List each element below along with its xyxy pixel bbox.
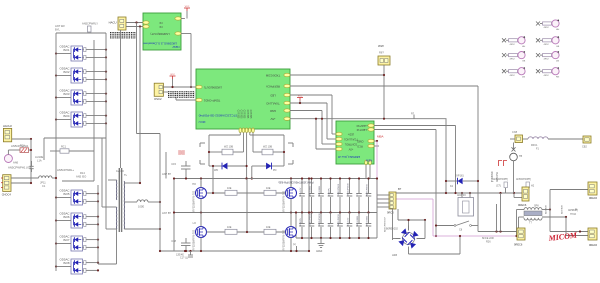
- svg-text:C07 805: C07 805: [243, 110, 245, 119]
- svg-text:6R2DJPW00: 6R2DJPW00: [347, 183, 349, 196]
- svg-text:ISO4: ISO4: [63, 114, 70, 118]
- svg-text:TB: TB: [519, 155, 523, 158]
- svg-text:10E: 10E: [266, 187, 271, 190]
- svg-text:(L): (L): [293, 243, 296, 246]
- svg-text:9REC6: 9REC6: [518, 203, 527, 207]
- svg-text:IRF3205WRF8-7E0: IRF3205WRF8-7E0: [283, 190, 286, 212]
- svg-text:LM2596S_5.0_Datasheet: LM2596S_5.0_Datasheet: [143, 42, 177, 46]
- svg-text:BYL: BYL: [55, 28, 60, 32]
- svg-text:C1: C1: [42, 184, 46, 188]
- svg-text:C15: C15: [171, 162, 176, 166]
- svg-text:WW: WW: [378, 44, 384, 48]
- svg-text:ISO5: ISO5: [63, 192, 70, 196]
- svg-text:C/4DJPW00: C/4DJPW00: [338, 183, 340, 196]
- svg-text:HACU: HACU: [109, 21, 117, 25]
- svg-text:C1? (L): C1? (L): [180, 257, 188, 260]
- svg-text:ISO6: ISO6: [63, 215, 70, 219]
- svg-text:HACU2: HACU2: [3, 124, 12, 128]
- svg-text:GB: GB: [556, 46, 560, 48]
- svg-text:C/4DJPW00: C/4DJPW00: [309, 213, 311, 226]
- svg-text:LM2596(OUT): LM2596(OUT): [150, 32, 169, 36]
- svg-text:C07 805: C07 805: [249, 110, 251, 119]
- svg-text:4R52: 4R52: [510, 59, 516, 61]
- svg-text:RC1: RC1: [61, 146, 67, 149]
- svg-text:0+C03: 0+C03: [116, 169, 124, 173]
- svg-text:4R 100EB: 4R 100EB: [309, 185, 311, 196]
- svg-text:R14: R14: [80, 171, 85, 175]
- svg-text:ISO7: ISO7: [63, 238, 70, 242]
- svg-text:C18: C18: [171, 239, 176, 243]
- svg-text:EBPD/E4_Rev.u5: EBPD/E4_Rev.u5: [338, 155, 360, 159]
- svg-text:AN7 B?: AN7 B?: [162, 211, 171, 215]
- svg-text:4R52: 4R52: [544, 44, 550, 46]
- svg-text:AN5CPWRLY: AN5CPWRLY: [82, 22, 98, 26]
- svg-text:LED+: LED+: [347, 132, 354, 135]
- svg-text:IRF3205WRF8-7E0: IRF3205WRF8-7E0: [193, 229, 196, 251]
- svg-text:LM2596(OUT): LM2596(OUT): [204, 86, 222, 90]
- svg-text:AN5CPWRL+: AN5CPWRL+: [57, 168, 75, 172]
- svg-text:AN5UPW00: AN5UPW00: [365, 183, 368, 196]
- svg-text:C07 805: C07 805: [240, 110, 242, 119]
- svg-text:B?: B?: [398, 187, 402, 191]
- svg-text:AU10E: AU10E: [35, 155, 43, 159]
- svg-text:AN5/B08: AN5/B08: [545, 204, 548, 214]
- svg-text:HH: HH: [556, 29, 560, 31]
- svg-text:[HdMOND: [HdMOND: [492, 171, 494, 182]
- svg-text:9RC0: 9RC0: [387, 211, 394, 215]
- svg-text:-LED/T1F: -LED/T1F: [356, 128, 367, 131]
- svg-text:C07 805: C07 805: [246, 110, 248, 119]
- svg-text:4R52: 4R52: [544, 27, 550, 29]
- svg-text:47u 16V: 47u 16V: [347, 217, 349, 226]
- svg-text:AREF: AREF: [316, 250, 323, 253]
- svg-text:TXA/LLNO: TXA/LLNO: [265, 101, 279, 105]
- svg-text:47u 16V: 47u 16V: [300, 187, 302, 196]
- svg-text:4R 100EB: 4R 100EB: [357, 215, 359, 226]
- svg-text:PWM 100RT/45UCE/XPW-8(B): PWM 100RT/45UCE/XPW-8(B): [278, 181, 313, 184]
- svg-text:NI: NI: [159, 25, 162, 29]
- svg-text:AN5CPWPH]: AN5CPWPH]: [516, 178, 531, 181]
- svg-text:HH: HH: [522, 46, 526, 48]
- svg-text:AN5CPWPH]: AN5CPWPH]: [493, 178, 508, 181]
- svg-text:ANT W2: ANT W2: [55, 24, 65, 28]
- svg-text:B0REA202: B0REA202: [386, 228, 398, 231]
- svg-text:RCO: RCO: [357, 145, 363, 148]
- svg-text:C07 805: C07 805: [236, 110, 238, 119]
- svg-text:10E: 10E: [266, 226, 271, 229]
- svg-text:MCU: MCU: [199, 120, 206, 124]
- svg-text:R6?: R6?: [379, 51, 384, 55]
- svg-text:9REC6: 9REC6: [514, 243, 523, 247]
- svg-text:PD: PD: [273, 169, 277, 172]
- svg-text:ISO3: ISO3: [63, 92, 70, 96]
- svg-text:4R 100EB: 4R 100EB: [366, 215, 368, 226]
- svg-text:HO: HO: [192, 183, 196, 186]
- svg-text:VCC: VCC: [185, 6, 190, 8]
- svg-text:CONTROL: CONTROL: [344, 142, 357, 145]
- svg-text:H4B: H4B: [392, 253, 397, 257]
- svg-text:PI: PI: [575, 209, 578, 212]
- svg-text:GND: GND: [270, 109, 276, 113]
- svg-text:HY1D: HY1D: [570, 214, 576, 216]
- svg-text:STC12C5A60S2-35I-PDIP40: STC12C5A60S2-35I-PDIP40: [198, 114, 237, 118]
- svg-text:AN5CPWPH1 (G0): AN5CPWPH1 (G0): [8, 166, 32, 170]
- svg-text:4R52: 4R52: [510, 75, 516, 77]
- svg-text:VCC: VCC: [170, 74, 175, 76]
- svg-text:WD: WD: [214, 169, 218, 172]
- svg-text:NI: NI: [159, 21, 162, 25]
- svg-text:4R52: 4R52: [544, 59, 550, 61]
- svg-text:+5V: +5V: [270, 117, 275, 121]
- svg-text:AN5CPW: AN5CPW: [496, 171, 499, 182]
- svg-text:NEW: NEW: [172, 45, 179, 49]
- svg-text:R26: R26: [486, 241, 491, 244]
- svg-text:WZ 10B: WZ 10B: [263, 146, 272, 149]
- svg-text:4R52: 4R52: [510, 44, 516, 46]
- svg-text:100E: 100E: [138, 205, 144, 209]
- svg-text:OSC2: OSC2: [154, 97, 162, 101]
- svg-text:4R52: 4R52: [544, 75, 550, 77]
- svg-text:105EPU: 105EPU: [328, 187, 330, 196]
- svg-text:ISO1: ISO1: [63, 48, 70, 52]
- svg-text:4R 100EB: 4R 100EB: [319, 185, 321, 196]
- svg-text:JXP181: JXP181: [455, 175, 464, 178]
- svg-text:MBA: MBA: [377, 135, 384, 139]
- svg-text:CHOC4: CHOC4: [2, 193, 12, 197]
- svg-text:TXD0/COM: TXD0/COM: [265, 73, 280, 77]
- svg-text:10E: 10E: [227, 226, 232, 229]
- svg-text:LO: LO: [193, 222, 196, 225]
- svg-text:ISO8: ISO8: [63, 261, 70, 265]
- svg-text:(C?): (C?): [496, 185, 501, 188]
- svg-text:AN5UPW00: AN5UPW00: [337, 213, 340, 226]
- svg-text:IRF3205WRF8-7E0: IRF3205WRF8-7E0: [193, 190, 196, 212]
- svg-text:L1A: L1A: [37, 159, 42, 163]
- svg-text:+LED/T1F: +LED/T1F: [356, 124, 368, 127]
- svg-text:WZ 10B: WZ 10B: [224, 146, 233, 149]
- svg-text:RN: RN: [556, 77, 560, 79]
- svg-text:CB2: CB2: [582, 146, 587, 149]
- svg-text:TCA/LLNO1: TCA/LLNO1: [344, 137, 358, 140]
- svg-text:REF/PACA: REF/PACA: [266, 84, 280, 88]
- svg-text:JP11: JP11: [40, 181, 46, 185]
- svg-text:9REC6: 9REC6: [589, 197, 598, 200]
- svg-text:AN5 ISO: AN5 ISO: [76, 175, 86, 179]
- svg-text:GB: GB: [522, 61, 526, 63]
- svg-text:LED: LED: [270, 93, 275, 97]
- svg-text:DB: DB: [522, 77, 526, 79]
- svg-text:6R2DJPW00: 6R2DJPW00: [319, 213, 321, 226]
- svg-text:AN6: AN6: [13, 161, 19, 165]
- svg-text:IRF3205WRF8-7E0: IRF3205WRF8-7E0: [283, 229, 286, 251]
- svg-text:ISO2: ISO2: [63, 70, 70, 74]
- svg-text:TEMP-GND1: TEMP-GND1: [203, 99, 220, 103]
- svg-text:9REC6: 9REC6: [589, 244, 598, 247]
- svg-text:AN7 B?: AN7 B?: [162, 172, 171, 176]
- svg-text:DB: DB: [556, 61, 560, 63]
- svg-text:10E: 10E: [227, 187, 232, 190]
- svg-text:+5V: +5V: [348, 147, 353, 150]
- svg-text:CMD1: CMD1: [356, 140, 364, 143]
- svg-text:AN5/B08: AN5/B08: [561, 204, 564, 214]
- svg-text:VCC: VCC: [298, 96, 303, 98]
- svg-text:CX8: CX8: [512, 130, 518, 134]
- svg-text:NEW: NEW: [365, 159, 372, 163]
- svg-text:SPK: SPK: [534, 205, 539, 208]
- svg-text:105EPU: 105EPU: [300, 217, 302, 226]
- svg-text:TC1: TC1: [20, 145, 25, 148]
